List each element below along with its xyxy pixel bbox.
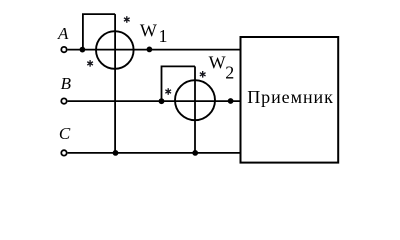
- wattmeter W2: [175, 80, 215, 120]
- svg-text:W: W: [140, 20, 157, 40]
- wire phase A: [68, 49, 241, 51]
- wire W2 voltage-coil loop: [162, 66, 196, 101]
- wire W1 voltage-coil loop: [83, 14, 115, 50]
- wire W2 vertical to phase C: [194, 66, 196, 152]
- terminal A: [61, 47, 66, 52]
- polarity mark W1 line side: [87, 60, 93, 67]
- polarity mark W1 coil side: [124, 16, 130, 23]
- junction on A after W1: [147, 47, 153, 53]
- svg-text:2: 2: [225, 63, 234, 83]
- junction on A at W1 tap: [80, 47, 86, 53]
- wire phase C: [68, 152, 241, 154]
- wattmeter W1: [96, 31, 134, 69]
- terminal C: [61, 150, 66, 155]
- svg-text:Приемник: Приемник: [247, 87, 334, 107]
- svg-text:W: W: [209, 53, 226, 73]
- wire W1 vertical to phase C: [114, 14, 116, 153]
- svg-text:B: B: [61, 74, 72, 93]
- svg-text:A: A: [57, 24, 69, 43]
- junction on C below W2: [192, 150, 198, 156]
- junction on B at W2 tap: [159, 98, 165, 104]
- polarity mark W2 coil side: [200, 71, 206, 78]
- svg-text:C: C: [59, 124, 71, 143]
- junction on B after W2: [228, 98, 234, 104]
- wire phase B: [68, 100, 241, 102]
- terminal B: [61, 98, 66, 103]
- junction on C below W1: [113, 150, 119, 156]
- load box Priemnik: [241, 37, 339, 163]
- polarity mark W2 line side: [165, 88, 171, 95]
- svg-text:1: 1: [159, 26, 168, 46]
